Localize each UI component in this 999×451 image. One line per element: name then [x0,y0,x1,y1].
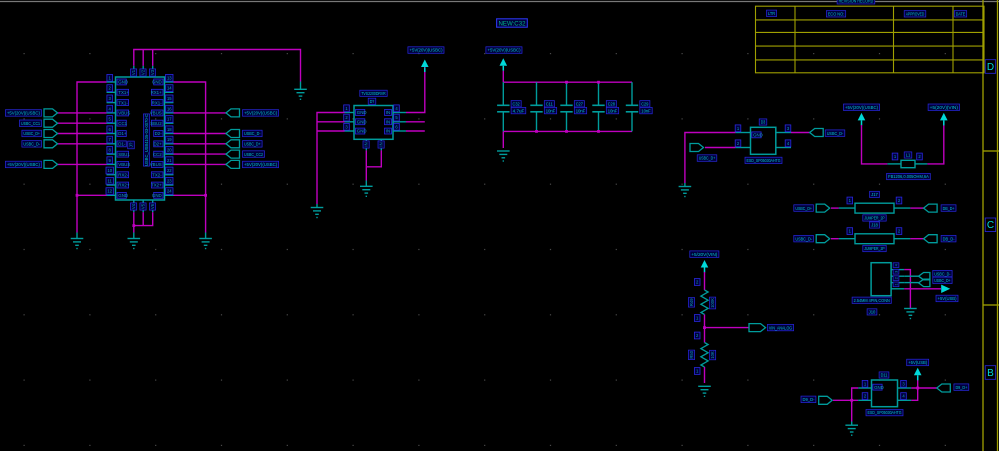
port +5V(20V)(USBC) (left) [58,163,107,165]
svg-text:VBUS: VBUS [150,162,162,167]
L1 pin 2 stub [915,163,927,165]
wire R49 to R50 [704,315,706,343]
svg-text:100K: 100K [710,298,715,308]
wire D? GND pins to ground [317,113,345,205]
revision record table [756,6,985,73]
capacitor C29 10nF [631,82,633,105]
wire V4 to ground [133,212,135,232]
column header APPROVED [904,11,926,17]
pin V1 [133,66,135,77]
R49 pin 2 [694,279,700,286]
svg-text:24: 24 [167,189,172,194]
svg-text:GND: GND [118,193,128,198]
wire [406,130,425,132]
svg-text:V5: V5 [141,203,146,209]
wire D3 pin1 to ground [685,133,736,184]
wire shell V2 [142,50,144,66]
svg-text:J17: J17 [871,192,878,197]
svg-text:1: 1 [894,283,898,285]
label USBC_D+ [933,277,952,283]
pin V6 [152,200,154,212]
svg-text:13: 13 [167,75,172,80]
pin 12 GND [107,194,116,196]
svg-text:21: 21 [167,158,172,163]
svg-text:+5V(20V)(USBC): +5V(20V)(USBC) [244,111,277,116]
svg-text:D1+: D1+ [118,131,127,136]
D11 pin 1 [858,387,871,389]
wire flag to R49 [704,272,706,290]
svg-text:D9_D-: D9_D- [803,397,815,402]
wire pin1 GND to ground rail [77,82,107,233]
svg-text:SBU1: SBU1 [118,152,130,157]
part ESD_SP05030AHTG (D11) [866,410,903,416]
ground center [128,239,141,249]
J18 pin2 stub [894,238,910,240]
TVS array D? body [354,106,393,140]
port +5V(20V)(USBC) (left) [58,112,107,114]
junction VIN_ANALOG tap [703,326,706,329]
pin 21 VBUS [165,163,174,165]
J10 pin 1 [891,288,904,290]
svg-text:+5V(20V)(USBC): +5V(20V)(USBC) [7,162,40,167]
port DB_D+ [910,207,923,209]
value JUMPER_2P [863,215,886,221]
label USBC_D+ [697,155,717,162]
svg-text:+5V(20V)(USBC): +5V(20V)(USBC) [409,48,442,53]
junction bottom rail [535,130,538,133]
ESD diode D3 body [751,127,776,154]
J18 pin1 stub [839,238,855,240]
power label +5V(20V)(USBC) [408,47,444,54]
svg-text:C27: C27 [576,102,583,107]
R50 pin 2 [694,332,700,339]
shield ground [294,89,307,99]
svg-text:10nF: 10nF [576,108,586,113]
svg-text:22: 22 [167,168,172,173]
svg-text:VBUS: VBUS [150,111,162,116]
power label +5/20V(VIN) [690,251,719,258]
wire R50 to ground [704,367,706,383]
wire D11 pin4 to +5V(USB) [911,376,917,400]
wire J10 pin4 to ground [904,270,910,308]
D3 pin 3 [776,132,791,134]
column header ECO NO: [826,11,845,17]
D11 pin 2 [858,399,871,401]
note NEW:C32 [497,19,528,28]
svg-text:+5V(20V)(USBC): +5V(20V)(USBC) [244,162,277,167]
svg-text:10K: 10K [710,351,715,359]
svg-text:IN: IN [386,129,390,134]
svg-text:V2: V2 [141,69,146,75]
port +5V(20V)(USBC) (right) [174,112,227,114]
D? pin 4 IN [393,112,406,114]
D3 pin 4 [776,147,791,149]
port USBC_D- (left) [58,143,107,145]
pin 3 TX1- [107,102,116,104]
svg-text:V4: V4 [131,203,136,209]
wire J10 pin3 to port USBC_D- [904,275,918,277]
refdes L1 [904,152,912,158]
jumper J18 body [855,234,894,244]
jumper J17 body [855,203,894,213]
L1 pin 1 stub [887,163,901,165]
power flag arrow [701,260,709,273]
part TVS2200DRVR [360,90,387,96]
port USBC_D+ (to D3 pin2) [690,144,704,152]
D? pin 5 IN [393,121,406,123]
pin 14 RX1+ [165,91,174,93]
svg-text:VBUS: VBUS [118,111,130,116]
svg-text:R49: R49 [689,298,694,306]
J17 pin number 1 [847,197,853,204]
junction shell bottom [132,224,135,227]
capacitor C27 10nF [566,82,568,105]
wire [317,121,345,123]
wire V5 [142,212,144,225]
label D9_D+ [954,384,969,391]
label VIN_ANALOG [767,324,793,330]
value JUMPER_2P [863,245,886,251]
svg-text:TX2+: TX2+ [151,183,162,188]
J18 pin number 1 [847,228,853,235]
svg-text:11: 11 [108,178,113,183]
svg-text:C29: C29 [641,102,648,107]
svg-text:USBC_D-: USBC_D- [827,131,844,136]
svg-text:USBC_D+: USBC_D+ [23,131,40,136]
power flag arrow +5(20V)(VIN) [940,113,948,126]
svg-text:10nF: 10nF [641,108,651,113]
capacitor C28 10nF [598,82,600,105]
pin 6 D1+ [107,133,116,135]
D? pin 1 GND [345,112,355,114]
svg-text:14: 14 [167,86,172,91]
junction bottom rail [565,130,568,133]
svg-text:CC2: CC2 [153,152,162,157]
L1 pin number 1 [892,153,898,160]
pin V4 [133,200,135,212]
svg-text:USBC_D-: USBC_D- [23,142,40,147]
svg-text:16: 16 [167,106,172,111]
svg-text:USBC_D+: USBC_D+ [795,206,812,211]
junction [916,387,919,390]
svg-text:FB1206,0.005OHM,6A: FB1206,0.005OHM,6A [888,174,929,179]
J17 pin number 2 [896,197,902,204]
wire flag to top rail [502,71,504,82]
svg-text:C32: C32 [513,102,520,107]
svg-text:D: D [987,62,994,73]
svg-text:D2+: D2+ [154,142,163,147]
junction GND right [204,194,207,197]
D? pin 6 IN [393,130,406,132]
svg-text:IN: IN [386,120,390,125]
svg-text:D9_D+: D9_D+ [955,385,967,390]
label USBC_D- [933,270,952,276]
pin 24 GND [165,194,174,196]
svg-text:L1: L1 [906,153,911,158]
J18 pin number 2 [896,228,902,235]
header J10 body [871,263,891,296]
svg-text:C28: C28 [608,102,615,107]
svg-text:23: 23 [167,178,172,183]
R49 pin 1 [694,315,700,322]
svg-text:TX2-: TX2- [152,172,162,177]
D3 pin 2 [735,147,750,149]
wire [317,130,345,132]
J10 pin 4 [891,269,904,271]
svg-text:GND: GND [152,80,162,85]
junction [850,399,853,402]
power label +5(20V)(VIN) [928,104,959,111]
svg-text:ECO NO:: ECO NO: [828,12,844,17]
column header LTR [767,10,777,16]
power label +5V(USB) [907,359,929,366]
svg-text:+5/20V(VIN): +5/20V(VIN) [691,252,718,257]
svg-text:+5V(20V)(USBC): +5V(20V)(USBC) [845,105,878,110]
svg-text:10nF: 10nF [608,108,618,113]
svg-text:IN: IN [379,142,384,146]
svg-text:J?: J? [129,142,134,147]
port D9_D- (to D11 pin2) [819,396,833,404]
pin 9 VBUS [107,163,116,165]
zone letter C [985,218,996,232]
J17 pin2 stub [894,207,910,209]
power flag +5V(USB) right arrow [941,285,950,293]
sheet top border [0,1,999,3]
svg-text:RX1-: RX1- [152,100,163,105]
svg-text:18: 18 [167,127,172,132]
svg-text:17: 17 [167,117,172,122]
svg-text:15: 15 [167,96,172,101]
svg-text:GND: GND [357,129,367,134]
L1 pin number 2 [917,153,923,160]
power label +5V(20V)(USBC) at L1 [844,104,880,111]
refdes D11 [879,372,889,378]
refdes D? [368,98,376,104]
D3 pin 1 [735,132,750,134]
pin 23 TX2+ [165,184,174,186]
svg-text:D2-: D2- [155,131,163,136]
wire shell V1 to shield ground trunk [134,50,301,82]
pin 10 RX2- [107,174,116,176]
svg-text:GND: GND [152,193,162,198]
sheet right border with zone ticks [983,0,999,451]
svg-text:USBC_D-: USBC_D- [244,131,261,136]
wire D? pin7 down [365,150,367,180]
connector J? USBC_USB4105 body [116,77,165,200]
junction top rail [597,81,600,84]
resistor R50 10K [701,343,708,368]
wire bottom rail to ground [502,131,504,148]
ground right [199,239,212,249]
title: REVISION RECORD [837,0,875,4]
svg-text:USBC_CC1: USBC_CC1 [21,121,40,126]
pin 22 TX2- [165,174,174,176]
svg-text:IN: IN [386,110,390,115]
svg-text:10nF: 10nF [546,108,556,113]
svg-text:3: 3 [894,271,898,273]
svg-text:GND: GND [357,110,367,115]
svg-text:J10: J10 [869,310,876,315]
wire L1 pin2 to VIN flag [927,125,943,164]
zone letter B [985,366,996,380]
wire J10 pin2 to port USBC_D+ [904,282,918,284]
svg-text:C11: C11 [546,102,553,107]
ground for J10 [904,309,917,319]
refdes J17 [870,191,880,197]
pin 19 D2+ [165,143,174,145]
svg-text:+5V(20V)(USBC): +5V(20V)(USBC) [487,48,520,53]
svg-text:RX2-: RX2- [118,172,129,177]
svg-text:LTR: LTR [768,11,776,16]
junction top rail [565,81,568,84]
svg-text:USBC_D+: USBC_D+ [244,142,261,147]
svg-text:VIN_ANALOG: VIN_ANALOG [769,325,793,330]
J17 pin1 stub [839,207,855,209]
port USBC_CC1 (left) [58,122,107,124]
svg-text:B: B [987,368,994,379]
power flag +5V(20V)(USBC) [421,60,429,73]
svg-text:DB_D+: DB_D+ [943,206,955,211]
svg-text:RX2+: RX2+ [118,183,130,188]
D11 pin 4 [898,399,912,401]
svg-text:GND: GND [753,133,763,138]
port USBC_CC2 (right) [174,153,227,155]
svg-text:V3: V3 [150,69,155,75]
pin V5 [142,200,144,212]
svg-text:20: 20 [167,148,172,153]
ground for D3 [679,187,692,197]
pin 5 CC1 [107,122,116,124]
wire D11 pin1 to ground [852,388,858,422]
svg-text:D?: D? [370,99,375,104]
junction bottom rail [597,130,600,133]
svg-text:4.7uF: 4.7uF [513,108,525,113]
value 2.54MM 4PIN,CONN [852,297,891,303]
resistor R49 100K [701,290,708,315]
svg-text:2: 2 [894,277,898,279]
svg-text:USBC_CC2: USBC_CC2 [244,152,263,157]
part USBC_USB4105-03-0070-C [143,114,149,166]
part ESD_SP05030AHTG [745,157,782,163]
svg-text:2.54MM 4PIN,CONN: 2.54MM 4PIN,CONN [854,298,890,303]
svg-text:JUMPER_2P: JUMPER_2P [864,246,884,251]
pin 8 SBU1 [107,153,116,155]
svg-text:GND: GND [118,80,128,85]
port USBC_D+ (right) [174,143,227,145]
ground for D? [311,208,324,218]
svg-text:ESD_SP05030AHTG: ESD_SP05030AHTG [747,158,781,163]
wire V6 join [134,212,153,225]
port USBC_D+ [816,204,830,212]
pin 2 TX1+ [107,91,116,93]
ground below R50 [698,386,711,396]
svg-text:12: 12 [107,189,112,194]
port DB_D- [910,238,923,240]
refdes J18 [870,222,880,228]
wire D? IN pins to VBUS flag [406,68,425,113]
pin 18 D2- [165,133,174,135]
D? pin 2 GND [345,121,355,123]
power label +5V(20V)(USBC) cap bank [486,47,522,54]
value FB1206,0.005OHM,6A [887,173,931,179]
pin 15 RX1- [165,102,174,104]
power flag +5V(USB) arrow [914,368,922,381]
power flag arrow [500,58,508,71]
svg-text:USBC_D+: USBC_D+ [934,278,951,283]
D? pin 3 GND [345,130,355,132]
ground left [71,239,84,249]
wire [106,211,108,213]
svg-text:RX1+: RX1+ [151,90,163,95]
svg-text:D1-: D1- [118,142,126,147]
svg-text:10: 10 [107,168,112,173]
svg-text:D11: D11 [881,373,888,378]
wire tap to port VIN_ANALOG [705,327,750,329]
pin 1 GND [107,81,116,83]
svg-text:JUMPER_2P: JUMPER_2P [864,216,884,221]
svg-text:C: C [987,220,994,231]
svg-text:USBC_USB4105-03-0070-C: USBC_USB4105-03-0070-C [144,114,149,166]
svg-text:V6: V6 [150,203,155,209]
pin 16 VBUS [165,112,174,114]
ground below D? [360,186,373,196]
svg-text:SBU2: SBU2 [150,121,162,126]
pin V3 [152,66,154,77]
ground cap bank [497,151,510,161]
svg-text:V1: V1 [131,69,136,75]
svg-text:R50: R50 [689,350,694,358]
refdes J10 [867,309,877,315]
svg-text:TVS2200DRVR: TVS2200DRVR [361,91,385,96]
svg-text:J18: J18 [871,223,878,228]
svg-text:19: 19 [167,137,172,142]
pin 17 SBU2 [165,122,174,124]
wire D11 pin3 to port D9_D+ [911,387,937,389]
cap bank bottom rail [503,130,632,132]
column header DATE [954,11,966,17]
svg-text:USBC_D-: USBC_D- [934,271,951,276]
ground for D11 [845,425,858,435]
wire pin13 GND to ground [174,82,206,233]
D11 pin 3 [898,387,912,389]
svg-text:GND: GND [357,120,367,125]
cap bank top rail [503,81,632,83]
junction GND rail [76,194,79,197]
svg-text:4: 4 [894,264,898,266]
svg-text:IN: IN [364,142,369,146]
label USBC_D- [825,130,845,137]
pin V2 [142,66,144,77]
svg-text:TX1-: TX1- [118,100,128,105]
capacitor C32 4.7uF [502,82,504,105]
refdes J? [128,141,135,149]
port USBC_D- (from D3 pin3) [791,132,810,134]
D? pin 7 [365,139,367,150]
svg-text:REVISION RECORD: REVISION RECORD [839,0,874,4]
D? pin 8 [380,139,382,150]
svg-text:GND: GND [874,385,884,390]
svg-text:USBC_D+: USBC_D+ [699,156,716,161]
port USBC_D+ (left) [58,133,107,135]
pin 7 D1- [107,143,116,145]
R50 pin 1 [694,368,700,375]
capacitor C11 10nF [536,82,538,105]
svg-text:DB_D-: DB_D- [943,236,955,241]
pin 20 CC2 [165,153,174,155]
port USBC_D- [816,235,830,243]
pin 13 GND [165,81,174,83]
wire D? pin8 join [366,150,381,166]
